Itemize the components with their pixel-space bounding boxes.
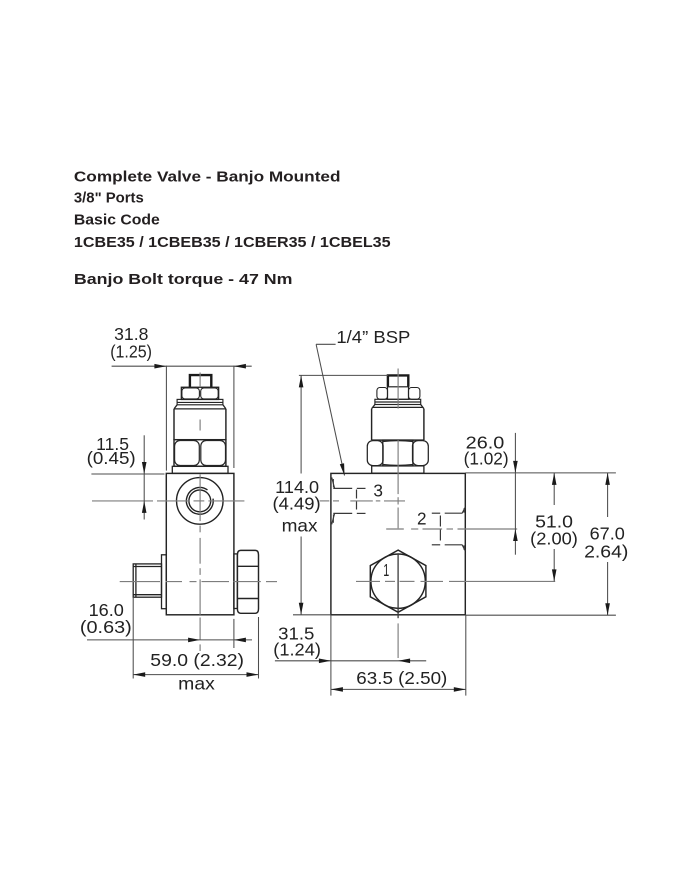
right banjo bolt hex head bbox=[237, 550, 258, 613]
dimension 59.0 (2.32) max left view bbox=[133, 597, 258, 678]
svg-text:3/8" Ports: 3/8" Ports bbox=[74, 190, 144, 207]
vertical centerline (right view) bbox=[397, 369, 399, 659]
dimension 11.5 (0.45) left view bbox=[91, 435, 164, 519]
svg-text:(1.24): (1.24) bbox=[273, 639, 321, 659]
dimension 26.0 (1.02) bbox=[465, 433, 616, 555]
dimension 63.5 (2.50) bbox=[331, 615, 466, 696]
dimension 114.0 (4.49) max bbox=[293, 375, 388, 614]
port 1 centerline bbox=[356, 580, 555, 582]
title text block bbox=[74, 168, 391, 288]
washer under screw (right view) bbox=[372, 466, 424, 473]
svg-text:3: 3 bbox=[373, 481, 383, 501]
svg-text:Basic Code: Basic Code bbox=[74, 212, 160, 229]
flare shoulder (right view) bbox=[372, 405, 424, 409]
port 2 centerline bbox=[386, 528, 517, 530]
upper hex locknut (right view) bbox=[377, 387, 420, 400]
cylinder body of screw (left view) bbox=[174, 409, 226, 440]
port 3 hidden lines bbox=[332, 477, 366, 524]
flare shoulder (left view) bbox=[174, 405, 226, 409]
left threaded stub bbox=[133, 564, 161, 597]
port 1 hexagon bbox=[370, 550, 426, 612]
valve body (left view) bbox=[166, 473, 234, 614]
svg-text:(0.63): (0.63) bbox=[80, 617, 132, 637]
dimension 51.0 (2.00) bbox=[553, 473, 555, 582]
leader 1/4" BSP bbox=[316, 344, 344, 475]
side fitting horizontal centerline (left view) bbox=[120, 581, 277, 583]
banjo port circle (left view) bbox=[177, 478, 224, 525]
svg-text:2.64): 2.64) bbox=[584, 541, 628, 561]
collar (left view) bbox=[177, 399, 223, 404]
svg-text:(1.02): (1.02) bbox=[464, 448, 509, 468]
adjustment screw cap (left view, bold) bbox=[190, 375, 211, 387]
port 3 centerline bbox=[320, 500, 406, 502]
cylinder body of screw (right view) bbox=[372, 409, 424, 440]
svg-text:Banjo Bolt torque - 47 Nm: Banjo Bolt torque - 47 Nm bbox=[74, 271, 293, 288]
svg-text:max: max bbox=[282, 516, 318, 536]
left stub flange washer bbox=[162, 555, 167, 609]
svg-text:Complete Valve - Banjo Mounted: Complete Valve - Banjo Mounted bbox=[74, 168, 341, 185]
right banjo washer bbox=[234, 554, 238, 609]
svg-text:2: 2 bbox=[417, 509, 427, 529]
valve block (right view) bbox=[331, 473, 465, 614]
svg-text:63.5 (2.50): 63.5 (2.50) bbox=[356, 668, 447, 688]
dimension 16.0 (0.63) left view bbox=[87, 619, 252, 648]
svg-text:1: 1 bbox=[383, 560, 389, 580]
svg-text:(2.00): (2.00) bbox=[530, 528, 578, 548]
collar (right view) bbox=[375, 399, 421, 404]
port 2 hidden lines bbox=[432, 507, 465, 551]
svg-text:(0.45): (0.45) bbox=[87, 448, 136, 468]
washer under screw (left view) bbox=[172, 466, 228, 473]
dimension 31.8 (1.25) top of left view bbox=[112, 366, 252, 471]
vertical centerline (left view) bbox=[199, 373, 201, 652]
adjuster locknut upper hex (left view) bbox=[181, 387, 218, 399]
adjustment screw cap (right view, bold) bbox=[388, 375, 408, 386]
svg-text:(4.49): (4.49) bbox=[273, 494, 321, 514]
svg-text:max: max bbox=[178, 673, 215, 693]
lower hex nut on screw (left view) bbox=[174, 440, 226, 467]
svg-text:59.0 (2.32): 59.0 (2.32) bbox=[150, 650, 244, 670]
svg-text:1CBE35 / 1CBEB35 / 1CBER35 / 1: 1CBE35 / 1CBEB35 / 1CBER35 / 1CBEL35 bbox=[74, 234, 391, 251]
banjo port horizontal centerline (left view) bbox=[92, 500, 244, 502]
svg-text:1/4” BSP: 1/4” BSP bbox=[336, 327, 410, 347]
dimension 67.0 2.64) bbox=[465, 473, 616, 615]
svg-text:(1.25): (1.25) bbox=[110, 342, 152, 362]
dimension 31.5 (1.24) bbox=[275, 615, 426, 696]
lower hex nut (right view) bbox=[367, 440, 428, 466]
